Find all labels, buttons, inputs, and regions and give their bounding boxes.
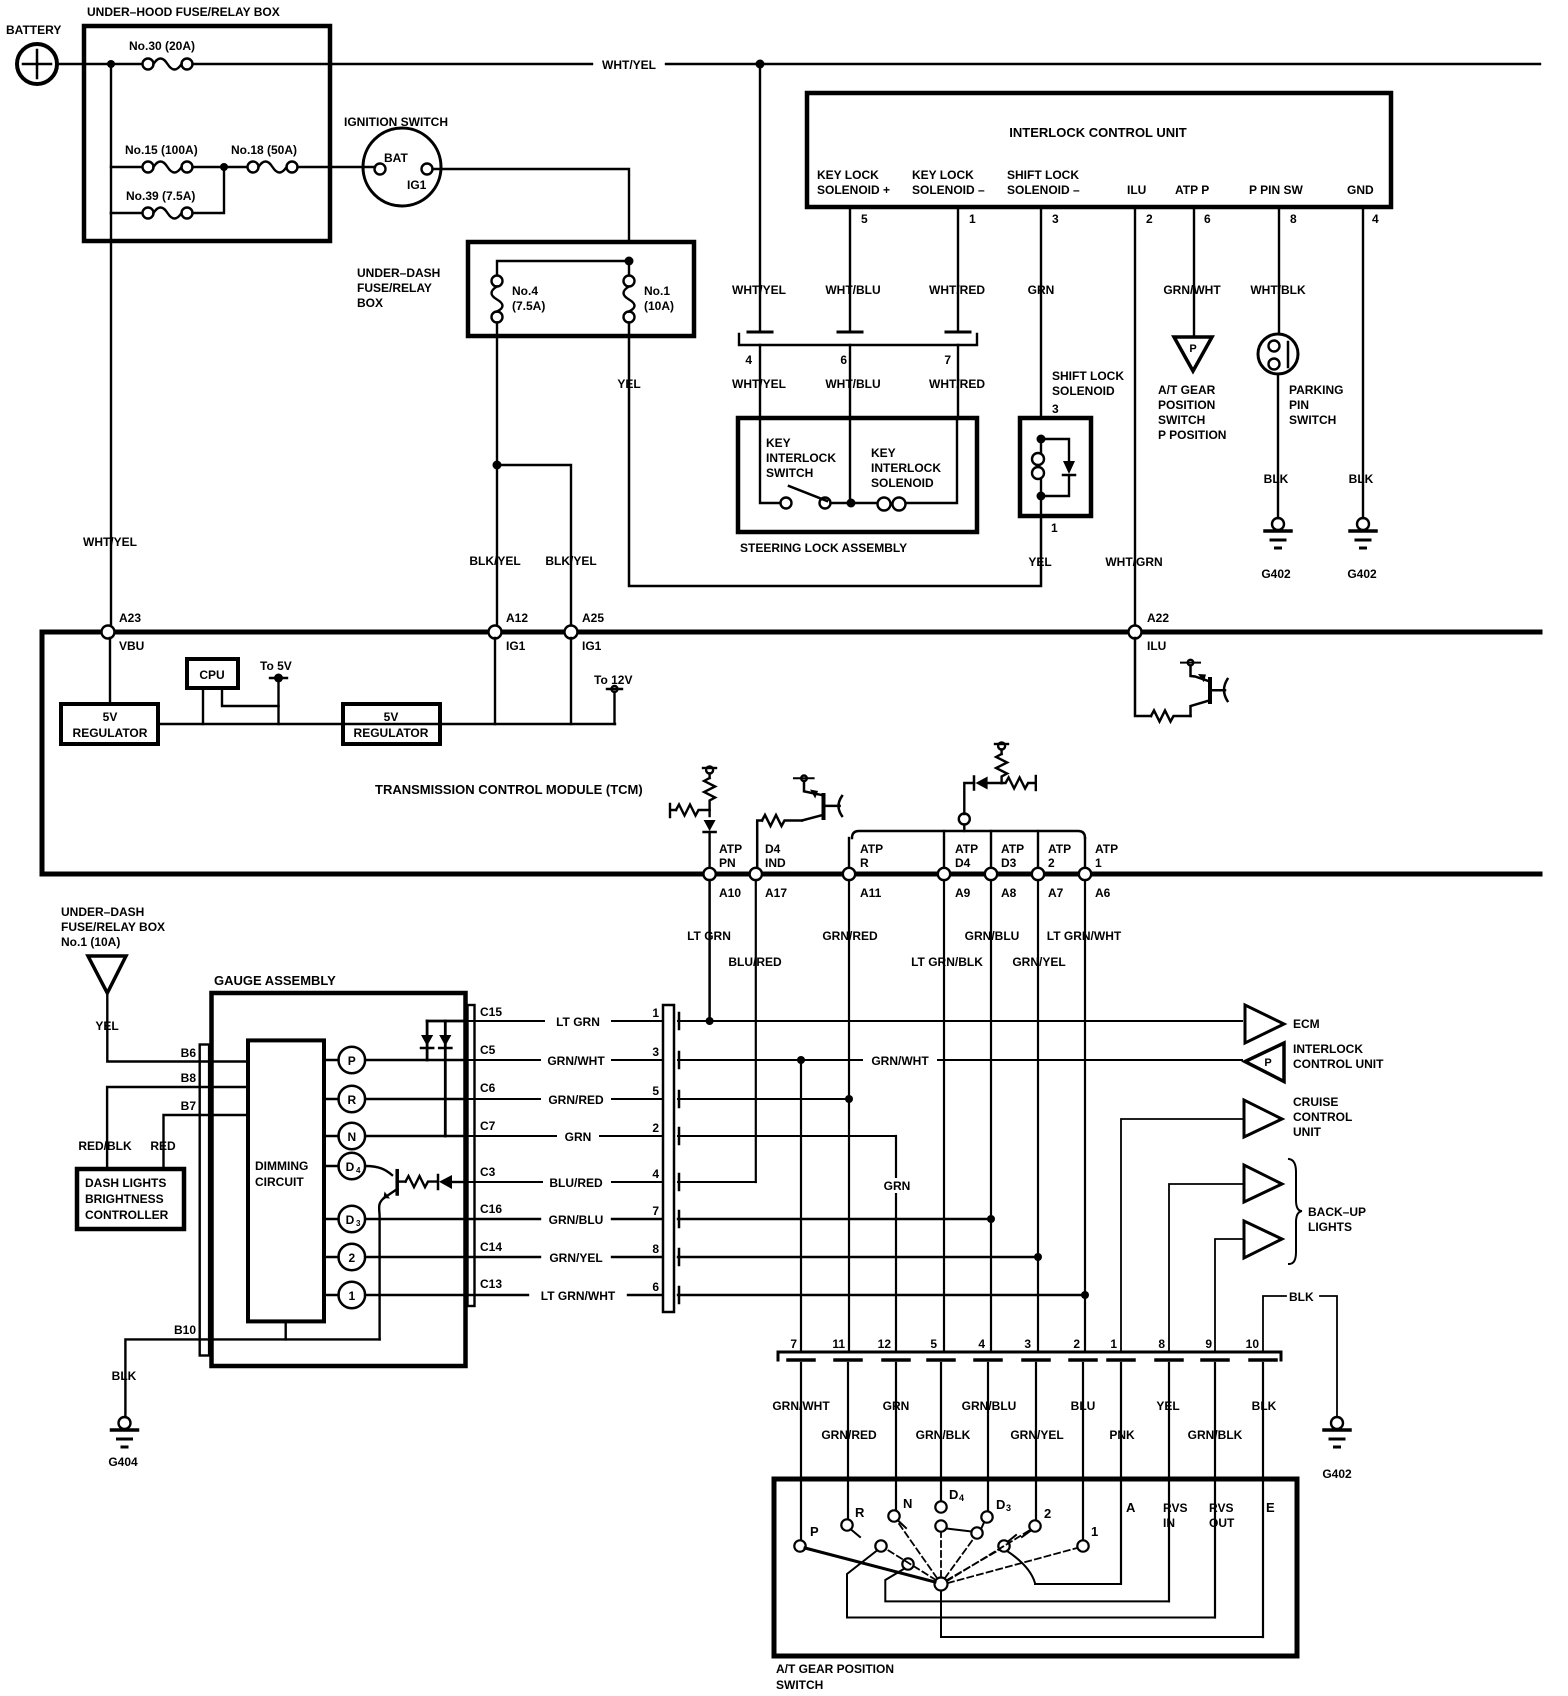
fuse No.18 (50A) (224, 143, 375, 173)
svg-text:ILU: ILU (1147, 639, 1166, 653)
node LT GRN junction (706, 1017, 714, 1025)
svg-text:LT GRN: LT GRN (556, 1015, 600, 1029)
gauge assembly box (212, 973, 466, 1366)
svg-text:GRN/YEL: GRN/YEL (549, 1251, 602, 1265)
wire junction down to No.15 row (110, 64, 112, 213)
svg-text:WHT/YEL: WHT/YEL (732, 377, 786, 391)
D4 driver transistor Q3 (365, 1166, 465, 1339)
wire ATP R column to bracket (848, 838, 850, 868)
svg-text:GND: GND (1347, 183, 1374, 197)
svg-text:8: 8 (1290, 212, 1297, 226)
svg-text:VBU: VBU (119, 639, 144, 653)
wire GRN pin3 to shift lock solenoid (1040, 207, 1042, 418)
connector A23 VBU (102, 611, 145, 653)
svg-text:YEL: YEL (617, 377, 640, 391)
svg-text:D4: D4 (765, 842, 781, 856)
svg-text:A17: A17 (765, 886, 787, 900)
svg-text:CIRCUIT: CIRCUIT (255, 1175, 304, 1189)
svg-text:WHT/BLK: WHT/BLK (1250, 283, 1306, 297)
svg-text:G402: G402 (1261, 567, 1291, 581)
svg-text:ATP: ATP (1001, 842, 1024, 856)
svg-text:P: P (1189, 343, 1196, 355)
common wiper contact (935, 1578, 948, 1591)
blade stub contact R (851, 1530, 860, 1538)
svg-text:2: 2 (1048, 856, 1055, 870)
svg-text:4: 4 (356, 1166, 361, 1175)
svg-text:BLU/RED: BLU/RED (728, 955, 782, 969)
svg-text:3: 3 (356, 1219, 361, 1228)
ground G402 (gear switch E) (1322, 1417, 1352, 1481)
wire WHT/RED to key interlock solenoid (957, 345, 959, 418)
svg-text:ATP: ATP (1095, 842, 1118, 856)
svg-text:UNDER–HOOD FUSE/RELAY BOX: UNDER–HOOD FUSE/RELAY BOX (87, 5, 280, 19)
svg-text:SWITCH: SWITCH (776, 1678, 823, 1692)
svg-text:ECM: ECM (1293, 1017, 1320, 1031)
node GRN/BLU junction (987, 1215, 995, 1223)
CPU box (187, 659, 238, 688)
svg-text:D: D (346, 1160, 355, 1174)
svg-text:C13: C13 (480, 1277, 502, 1291)
blade stub contact N (898, 1521, 906, 1529)
svg-text:IG1: IG1 (407, 178, 427, 192)
svg-text:YEL: YEL (1028, 555, 1051, 569)
node GRN/YEL junction (1034, 1253, 1042, 1261)
svg-text:1: 1 (1051, 521, 1058, 535)
svg-text:LT GRN/WHT: LT GRN/WHT (1047, 929, 1122, 943)
indicator lamp D4 (324, 1153, 365, 1180)
back-up light triangle (lower) (1244, 1221, 1282, 1258)
under-dash fuse/relay box (357, 242, 694, 336)
svg-text:C15: C15 (480, 1005, 502, 1019)
wire A9 column LT GRN/BLK (943, 880, 945, 1352)
svg-text:BLU: BLU (1071, 1399, 1096, 1413)
wire C13 LT GRN/WHT row (465, 1294, 1085, 1296)
svg-text:D3: D3 (1001, 856, 1017, 870)
svg-text:A11: A11 (860, 886, 882, 900)
svg-text:RVS: RVS (1163, 1501, 1187, 1515)
svg-text:GRN/BLU: GRN/BLU (549, 1213, 604, 1227)
dashed ray common to aux D3 (945, 1538, 974, 1578)
svg-text:RED/BLK: RED/BLK (78, 1139, 132, 1153)
wire ATP 2 column to bracket (1037, 831, 1039, 868)
svg-text:ATP P: ATP P (1175, 183, 1209, 197)
svg-text:9: 9 (1205, 1337, 1212, 1351)
svg-text:P PIN SW: P PIN SW (1249, 183, 1303, 197)
D4 IND transistor Q2 (757, 776, 842, 870)
svg-text:GRN/YEL: GRN/YEL (1012, 955, 1065, 969)
dashed ray common to aux 2-A (947, 1550, 999, 1580)
dimming circuit box (248, 1040, 324, 1321)
blade stub aux 2-A (1008, 1535, 1016, 1542)
svg-text:GRN: GRN (883, 1399, 910, 1413)
key interlock switch S1 (760, 418, 846, 509)
svg-text:UNDER–DASH: UNDER–DASH (61, 905, 144, 919)
wire BLK/YEL branch to A25 (497, 465, 571, 626)
wire B7 to brightness controller (164, 1115, 249, 1169)
wire B10 ground line (125, 1339, 379, 1417)
contact aux D3-2 (971, 1527, 982, 1538)
wire C6 GRN/RED row (465, 1098, 849, 1100)
indicator lamp N (324, 1123, 465, 1150)
svg-text:WHT/RED: WHT/RED (929, 283, 985, 297)
wire A11 column GRN/RED (848, 880, 850, 1352)
svg-text:RED: RED (150, 1139, 176, 1153)
connector A10 ATP PN (703, 842, 742, 900)
wire parking pin switch to ground (1277, 374, 1279, 518)
svg-text:B7: B7 (181, 1099, 197, 1113)
svg-text:BLK: BLK (1264, 472, 1289, 486)
svg-text:6: 6 (840, 353, 847, 367)
svg-text:GRN/RED: GRN/RED (822, 929, 878, 943)
connector strip B (200, 1045, 209, 1356)
svg-text:5V: 5V (103, 710, 118, 724)
svg-text:4: 4 (1372, 212, 1379, 226)
indicator lamp D3 (324, 1206, 465, 1233)
cruise control unit triangle (1244, 1095, 1352, 1139)
svg-text:CPU: CPU (199, 668, 224, 682)
svg-text:(7.5A): (7.5A) (512, 299, 545, 313)
svg-text:GRN/BLU: GRN/BLU (965, 929, 1020, 943)
svg-text:7: 7 (652, 1204, 659, 1218)
svg-text:KEY: KEY (871, 446, 896, 460)
svg-text:4: 4 (978, 1337, 985, 1351)
svg-text:E: E (1266, 1500, 1275, 1515)
svg-text:6: 6 (1204, 212, 1211, 226)
svg-text:P: P (810, 1524, 819, 1539)
contact aux RVS IN (902, 1558, 913, 1569)
svg-text:BOX: BOX (357, 296, 383, 310)
wire C3 BLU/RED row (465, 1181, 756, 1183)
svg-text:LT GRN: LT GRN (687, 929, 731, 943)
wire pin10 column BLK to ground G402 (1263, 1296, 1337, 1417)
wire CPU pin to rail (202, 688, 204, 724)
svg-text:SOLENOID –: SOLENOID – (912, 183, 985, 197)
svg-text:KEY LOCK: KEY LOCK (817, 168, 879, 182)
svg-text:LT GRN/WHT: LT GRN/WHT (541, 1289, 616, 1303)
svg-text:WHT/RED: WHT/RED (929, 377, 985, 391)
wire C7 GRN row (465, 1135, 896, 1137)
svg-text:GRN/BLU: GRN/BLU (962, 1399, 1017, 1413)
svg-text:WHT/YEL: WHT/YEL (83, 535, 137, 549)
node: key interlock junction (847, 499, 856, 508)
wire pin1 PNK into switch (1120, 1363, 1122, 1584)
wire 5V rail between regulators (158, 723, 615, 725)
TCM left edge (40, 632, 45, 874)
wire A25 column inside TCM (570, 638, 572, 724)
illumination diode D4a (439, 1021, 451, 1136)
svg-text:1: 1 (652, 1006, 659, 1020)
contact D3 (981, 1511, 992, 1522)
svg-text:12: 12 (878, 1337, 892, 1351)
svg-text:4: 4 (652, 1167, 659, 1181)
gear switch harness connector bar (778, 1337, 1281, 1360)
wire ATP D3 column to bracket (990, 831, 992, 868)
svg-text:No.1: No.1 (644, 284, 670, 298)
svg-text:INTERLOCK: INTERLOCK (766, 451, 836, 465)
svg-text:CONTROL: CONTROL (1293, 1110, 1352, 1124)
wire battery to under-hood box (57, 63, 111, 65)
svg-text:CRUISE: CRUISE (1293, 1095, 1338, 1109)
key interlock solenoid coil L1 (851, 418, 957, 511)
svg-text:ATP: ATP (1048, 842, 1071, 856)
svg-text:C16: C16 (480, 1202, 502, 1216)
svg-text:INTERLOCK: INTERLOCK (1293, 1042, 1363, 1056)
ATP PN pull-up and diode D1 (670, 767, 716, 869)
svg-text:C5: C5 (480, 1043, 496, 1057)
svg-text:SOLENOID –: SOLENOID – (1007, 183, 1080, 197)
connector A8 ATP D3 (985, 842, 1024, 900)
svg-text:BLK: BLK (1289, 1290, 1314, 1304)
svg-text:BLK: BLK (1349, 472, 1374, 486)
svg-text:R: R (855, 1505, 865, 1520)
svg-text:A25: A25 (582, 611, 604, 625)
dash lights brightness controller box (77, 1169, 184, 1229)
connector A7 ATP 2 (1032, 842, 1071, 900)
svg-text:SOLENOID: SOLENOID (1052, 384, 1115, 398)
svg-text:P POSITION: P POSITION (1158, 428, 1226, 442)
svg-text:GRN: GRN (884, 1179, 911, 1193)
wire pin9 column GRN/BLK to back-up light (1215, 1239, 1244, 1352)
svg-text:SWITCH: SWITCH (1158, 413, 1205, 427)
svg-text:A6: A6 (1095, 886, 1111, 900)
svg-text:7: 7 (790, 1337, 797, 1351)
wire ILU pin2 to TCM A22 (1134, 207, 1136, 626)
svg-text:D: D (949, 1487, 958, 1502)
wire pin3 GRN/YEL into switch (1035, 1363, 1037, 1520)
wire BLK/YEL No.4 to A12 (496, 323, 498, 627)
wire pin9 GRN/BLK into switch (1214, 1363, 1216, 1618)
connector A12 IG1 (489, 611, 529, 653)
svg-text:B8: B8 (181, 1071, 197, 1085)
interlock control unit triangle (1245, 1042, 1384, 1082)
svg-text:BRIGHTNESS: BRIGHTNESS (85, 1192, 164, 1206)
svg-text:REGULATOR: REGULATOR (73, 726, 148, 740)
wire fuse No.30 to right (WHT/YEL main) (193, 63, 1541, 65)
svg-text:KEY LOCK: KEY LOCK (912, 168, 974, 182)
contact D4 upper (935, 1501, 946, 1512)
node GRN/RED junction (845, 1095, 853, 1103)
svg-text:WHT/YEL: WHT/YEL (602, 58, 656, 72)
svg-text:WHT/GRN: WHT/GRN (1105, 555, 1162, 569)
svg-text:To 5V: To 5V (260, 659, 292, 673)
connector A11 ATP R (843, 842, 883, 900)
wire pin8 column YEL to back-up light (1169, 1184, 1244, 1352)
svg-text:R: R (347, 1093, 356, 1107)
svg-text:GRN/YEL: GRN/YEL (1010, 1428, 1063, 1442)
svg-text:2: 2 (652, 1121, 659, 1135)
wire YEL triangle to gauge B6 (107, 993, 248, 1062)
svg-text:G402: G402 (1322, 1467, 1352, 1481)
svg-text:10: 10 (1246, 1337, 1260, 1351)
wire WHT/BLK pin8 to parking pin switch (1278, 207, 1280, 334)
connector A9 ATP D4 (938, 842, 978, 900)
svg-text:LIGHTS: LIGHTS (1308, 1220, 1352, 1234)
svg-text:ATP: ATP (860, 842, 883, 856)
fuse No.1 (10A) (624, 261, 675, 323)
svg-text:D4: D4 (955, 856, 971, 870)
wire WHT/BLU to key interlock solenoid (849, 345, 851, 418)
terminal To 5V (260, 659, 292, 724)
svg-text:BAT: BAT (384, 151, 408, 165)
svg-text:ILU: ILU (1127, 183, 1146, 197)
svg-text:(10A): (10A) (644, 299, 674, 313)
node: No.15/No.18 junction (220, 163, 228, 171)
dashed ray common to RVS aux (886, 1549, 936, 1580)
shift lock solenoid internals L2 (1028, 435, 1075, 570)
svg-text:BACK–UP: BACK–UP (1308, 1205, 1366, 1219)
svg-text:STEERING LOCK ASSEMBLY: STEERING LOCK ASSEMBLY (740, 541, 907, 555)
fuse No.39 (7.5A) (111, 167, 224, 219)
wire YEL No.1 fuse to shift lock solenoid (629, 323, 1041, 587)
connector A25 IG1 (565, 611, 605, 653)
svg-text:KEY: KEY (766, 436, 791, 450)
wire pin8 YEL into switch (1168, 1363, 1170, 1601)
fuse No.30 (20A) (111, 39, 195, 70)
svg-text:3: 3 (1052, 402, 1059, 416)
svg-text:UNIT: UNIT (1293, 1125, 1322, 1139)
wire WHT/YEL left column to TCM A23 (110, 213, 112, 626)
wire A6 column LT GRN/WHT (1084, 880, 1086, 1352)
svg-text:SOLENOID +: SOLENOID + (817, 183, 890, 197)
svg-text:BLK: BLK (1252, 1399, 1277, 1413)
svg-text:8: 8 (1158, 1337, 1165, 1351)
svg-text:IN: IN (1163, 1516, 1175, 1530)
svg-text:SWITCH: SWITCH (1289, 413, 1336, 427)
svg-text:4: 4 (745, 353, 752, 367)
svg-text:4: 4 (959, 1493, 964, 1503)
wire C14 GRN/YEL row (465, 1256, 1038, 1258)
svg-text:ATP: ATP (719, 842, 742, 856)
contact D4 lower (935, 1520, 946, 1531)
wire aux RVS OUT to pin9 (847, 1551, 1215, 1618)
svg-text:IG1: IG1 (582, 639, 602, 653)
svg-text:C6: C6 (480, 1081, 496, 1095)
svg-text:SWITCH: SWITCH (766, 466, 813, 480)
svg-text:2: 2 (348, 1251, 355, 1265)
wire pin12 GRN into switch (895, 1363, 897, 1510)
contact P (794, 1540, 805, 1551)
connector 4/6/7 bracket (739, 332, 977, 367)
under-hood fuse/relay box (84, 5, 330, 241)
indicator lamp 1 (324, 1282, 465, 1309)
svg-text:P: P (1264, 1057, 1271, 1069)
svg-text:No.30 (20A): No.30 (20A) (129, 39, 195, 53)
svg-text:INTERLOCK CONTROL UNIT: INTERLOCK CONTROL UNIT (1009, 125, 1186, 140)
wire pin5 GRN/BLK into switch (940, 1363, 942, 1501)
under-dash fuse No.1 source triangle (61, 905, 165, 993)
TCM top bus (42, 630, 1540, 635)
svg-text:1: 1 (969, 212, 976, 226)
svg-text:PIN: PIN (1289, 398, 1309, 412)
svg-text:RVS: RVS (1209, 1501, 1233, 1515)
wire pin12 column GRN (895, 1136, 897, 1352)
svg-text:CONTROLLER: CONTROLLER (85, 1208, 169, 1222)
node LT GRN/WHT junction (1081, 1291, 1089, 1299)
wire pin7 column GRN/WHT (800, 1060, 802, 1352)
svg-text:C7: C7 (480, 1119, 496, 1133)
svg-text:BLK: BLK (112, 1369, 137, 1383)
ignition switch (344, 115, 448, 206)
svg-text:A/T GEAR: A/T GEAR (1158, 383, 1216, 397)
connector bar C (gauge to harness) (652, 1005, 679, 1312)
svg-text:2: 2 (1146, 212, 1153, 226)
svg-text:No.4: No.4 (512, 284, 538, 298)
svg-text:A9: A9 (955, 886, 971, 900)
wire A7 column GRN/YEL (1037, 880, 1039, 1352)
svg-text:A10: A10 (719, 886, 741, 900)
battery (6, 23, 61, 84)
wire CPU pin to 5V terminal (222, 688, 279, 706)
svg-text:GRN/RED: GRN/RED (548, 1093, 604, 1107)
interlock control unit U1 (807, 93, 1391, 207)
svg-text:A12: A12 (506, 611, 528, 625)
shift lock solenoid box (1020, 369, 1124, 516)
svg-text:BLK/YEL: BLK/YEL (545, 554, 596, 568)
svg-text:5: 5 (652, 1084, 659, 1098)
svg-text:GRN/BLK: GRN/BLK (1188, 1428, 1243, 1442)
wire ATP D4 column to bracket (943, 831, 945, 868)
wire aux 2-A to pin1 A (1007, 1551, 1121, 1584)
wire WHT/YEL column to connector (759, 64, 761, 331)
svg-text:1: 1 (1091, 1524, 1098, 1539)
svg-text:LT GRN/BLK: LT GRN/BLK (911, 955, 983, 969)
connector A17 D4 IND (750, 842, 788, 900)
svg-text:No.39 (7.5A): No.39 (7.5A) (126, 189, 195, 203)
svg-text:WHT/YEL: WHT/YEL (732, 283, 786, 297)
svg-text:UNDER–DASH: UNDER–DASH (357, 266, 440, 280)
svg-text:BLK/YEL: BLK/YEL (469, 554, 520, 568)
wire pin4 GRN/BLU into switch (987, 1363, 989, 1511)
node: BLK/YEL branch junction (493, 461, 502, 470)
svg-text:C14: C14 (480, 1240, 502, 1254)
svg-text:3: 3 (652, 1045, 659, 1059)
indicator lamp P (324, 1047, 465, 1074)
node GRN/WHT junction (797, 1056, 805, 1064)
wire dimming circuit to B10 (285, 1322, 287, 1340)
svg-text:ATP: ATP (955, 842, 978, 856)
svg-text:G402: G402 (1347, 567, 1377, 581)
svg-text:GRN/WHT: GRN/WHT (871, 1054, 929, 1068)
link D4 lower to aux D3 (947, 1529, 972, 1532)
svg-text:GRN/RED: GRN/RED (821, 1428, 877, 1442)
svg-text:A/T GEAR POSITION: A/T GEAR POSITION (776, 1662, 894, 1676)
svg-text:G404: G404 (108, 1455, 138, 1469)
svg-text:BLU/RED: BLU/RED (549, 1176, 603, 1190)
wire WHT/YEL to key interlock switch (759, 345, 761, 418)
svg-text:GRN/BLK: GRN/BLK (916, 1428, 971, 1442)
svg-text:R: R (860, 856, 869, 870)
contact N (888, 1510, 899, 1521)
svg-text:YEL: YEL (95, 1019, 118, 1033)
terminal To 12V (594, 673, 632, 724)
svg-text:GRN: GRN (1028, 283, 1055, 297)
svg-text:11: 11 (832, 1337, 845, 1351)
svg-text:A22: A22 (1147, 611, 1169, 625)
svg-text:No.15 (100A): No.15 (100A) (125, 143, 198, 157)
svg-text:TRANSMISSION CONTROL MODULE (T: TRANSMISSION CONTROL MODULE (TCM) (375, 782, 643, 797)
svg-text:P: P (348, 1054, 356, 1068)
svg-text:PN: PN (719, 856, 736, 870)
back-up light triangle (upper) (1244, 1165, 1282, 1202)
wire WHT/BLU pin5 to connector (849, 207, 851, 331)
wire pin10 BLK into switch (1262, 1363, 1264, 1637)
svg-text:A8: A8 (1001, 886, 1017, 900)
blade stub contact 2 (1022, 1531, 1031, 1538)
ECM triangle (1245, 1005, 1320, 1043)
svg-text:WHT/BLU: WHT/BLU (825, 377, 880, 391)
wire C5 GRN/WHT row (465, 1059, 1242, 1061)
svg-text:POSITION: POSITION (1158, 398, 1215, 412)
